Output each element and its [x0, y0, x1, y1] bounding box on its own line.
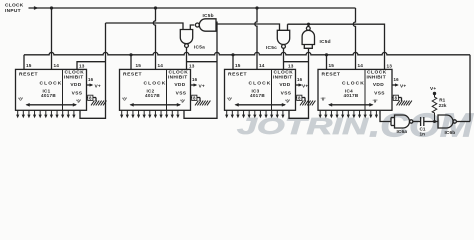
svg-text:CLOCK: CLOCK: [40, 80, 63, 86]
IC1 label VDD: [70, 82, 81, 88]
wire IC1 pin 13 wire: [77, 62, 106, 70]
IC4 pin 13 label: [387, 64, 393, 69]
svg-text:‘9’: ‘9’: [372, 99, 377, 104]
wire IC5d output to IC4 pin 13: [288, 24, 385, 69]
svg-text:16: 16: [192, 77, 198, 82]
wire IC2 pin 13 wire: [187, 61, 218, 63]
IC1 VSS wire: [87, 98, 97, 102]
C1 value label: [420, 127, 426, 137]
IC4 decoded outputs 0-9 arrows: [319, 110, 378, 118]
svg-text:V+: V+: [430, 86, 436, 92]
svg-text:IC6a: IC6a: [397, 129, 408, 135]
IC3 pin 16 label: [297, 77, 303, 82]
svg-text:V+: V+: [400, 83, 406, 89]
IC2 part number 4017B: [145, 93, 160, 98]
IC4 label VDD: [373, 82, 384, 88]
svg-text:INHIBIT: INHIBIT: [367, 75, 386, 81]
svg-text:14: 14: [259, 63, 265, 68]
svg-text:INHIBIT: INHIBIT: [168, 75, 187, 81]
svg-text:13: 13: [79, 64, 85, 69]
svg-text:V+: V+: [199, 83, 205, 89]
svg-text:CLOCK: CLOCK: [249, 80, 272, 86]
svg-text:22k: 22k: [439, 103, 447, 108]
IC5b input tie bar: [216, 22, 217, 28]
IC4 internal partition: [364, 69, 366, 110]
IC3 VDD wire to V+: [296, 83, 303, 86]
node CLOCK INPUT label: [5, 3, 24, 15]
wire clock to IC2 pin 14: [153, 8, 155, 69]
wire clock to IC3 pin 14: [255, 8, 257, 69]
IC3 part number 4017B: [250, 93, 265, 98]
svg-text:15: 15: [329, 63, 335, 68]
IC2 output '0' label: [122, 97, 127, 102]
IC3 ground: [300, 101, 315, 106]
wire IC6a output to C1: [413, 121, 421, 123]
IC1 pin 16 label: [88, 77, 94, 82]
nand gate IC5c: [277, 30, 289, 48]
svg-text:13: 13: [288, 64, 294, 69]
IC4 output '0' label: [320, 97, 325, 102]
svg-text:4017B: 4017B: [250, 93, 265, 98]
IC5c label: [266, 45, 277, 51]
IC1 outputs 0-9 span arrow: [26, 103, 78, 107]
svg-text:JOTRIN: JOTRIN: [237, 113, 370, 139]
IC2 VSS wire: [191, 98, 201, 102]
IC1 label CLOCK: [40, 80, 63, 86]
svg-text:V+: V+: [302, 83, 308, 89]
IC4 label CLOCK: [342, 80, 365, 86]
IC2 pin 16 label: [192, 77, 198, 82]
svg-text:15: 15: [136, 63, 142, 68]
IC1 label CLOCK INHIBIT: [64, 70, 84, 81]
wire IC3 '9' output loop: [289, 48, 309, 118]
IC2 pin 8 box: [192, 95, 197, 100]
svg-text:R1: R1: [439, 98, 445, 103]
junction IC5d output on net: [307, 23, 310, 26]
IC4 name: [345, 88, 353, 93]
counter IC3 4017B box: [225, 69, 296, 110]
IC3 decoded outputs 0-9 arrows: [225, 110, 284, 118]
IC5b label: [203, 13, 214, 19]
IC4 label RESET: [322, 71, 341, 77]
IC2 label VDD: [174, 82, 185, 88]
IC3 label CLOCK: [249, 80, 272, 86]
svg-text:RESET: RESET: [322, 71, 341, 77]
IC1 decoded outputs 0-9 arrows: [16, 110, 75, 118]
IC1 label VSS: [72, 91, 83, 97]
junction clock to IC2 pin14: [154, 6, 157, 9]
wire C1 to IC6b input: [424, 121, 438, 123]
IC3 label RESET: [228, 71, 247, 77]
IC1 V+ label: [95, 83, 101, 89]
IC3 pin 13 label: [288, 64, 294, 69]
IC3 output '0' label: [227, 97, 232, 102]
nand gate IC6b: [438, 115, 456, 128]
svg-text:‘9’: ‘9’: [285, 99, 290, 104]
svg-text:VSS: VSS: [72, 91, 83, 97]
svg-text:‘0’: ‘0’: [227, 97, 232, 102]
IC2 internal partition: [166, 69, 168, 110]
svg-text:RESET: RESET: [19, 71, 38, 77]
IC4 label VSS: [374, 91, 385, 97]
IC1 output '0' label: [18, 97, 23, 102]
wire IC5c output to IC3 pin 13: [283, 48, 285, 69]
IC4 pin 15 label: [329, 63, 335, 68]
svg-text:INHIBIT: INHIBIT: [64, 75, 83, 81]
IC2 pin 14 label: [158, 63, 164, 68]
IC4 V+ label: [400, 83, 406, 89]
IC4 ground: [397, 101, 412, 106]
svg-text:‘0’: ‘0’: [18, 97, 23, 102]
wire IC5a right input from IC5b output: [190, 25, 194, 30]
counter IC4 4017B box: [318, 69, 392, 110]
wire IC5c right input: [287, 24, 289, 30]
svg-text:IC5d: IC5d: [320, 39, 331, 45]
IC1 ground: [91, 101, 106, 106]
svg-text:16: 16: [394, 77, 400, 82]
svg-text:CLOCK: CLOCK: [342, 80, 365, 86]
IC4 pin 8 box: [393, 95, 398, 100]
svg-text:VDD: VDD: [279, 82, 290, 88]
svg-text:INHIBIT: INHIBIT: [273, 75, 292, 81]
svg-text:4017B: 4017B: [41, 93, 56, 98]
IC2 name: [146, 88, 154, 93]
IC2 decoded outputs 0-9 arrows: [120, 110, 179, 118]
wire RESET bus right edge feedback: [469, 55, 471, 122]
V+ supply terminal: [430, 86, 436, 95]
wire IC3 pin 13 wire: [284, 61, 309, 63]
svg-text:4017B: 4017B: [343, 93, 358, 98]
IC5d label: [320, 39, 331, 45]
svg-text:CLOCK: CLOCK: [5, 3, 24, 9]
IC1 label RESET: [19, 71, 38, 77]
IC2 label VSS: [176, 91, 187, 97]
R1 value label: [439, 98, 447, 108]
IC6a label: [397, 129, 408, 135]
IC4 output '9' label: [372, 99, 377, 104]
junction RESET bus to IC2 pin 15: [129, 53, 132, 56]
IC6a input tie bar: [391, 118, 395, 126]
IC3 pin 15 label: [235, 63, 241, 68]
junction clock to IC1 pin14: [50, 6, 53, 9]
svg-text:VSS: VSS: [281, 91, 292, 97]
IC4 VSS wire: [392, 98, 402, 102]
IC2 label CLOCK: [144, 80, 167, 86]
svg-text:VSS: VSS: [176, 91, 187, 97]
IC2 outputs 0-9 span arrow: [130, 103, 182, 107]
nand gate IC5b: [195, 19, 216, 31]
wire RESET bus down to IC1 pin 15: [23, 55, 25, 70]
junction R1 C1 IC6b node: [433, 120, 436, 123]
IC2 label RESET: [123, 71, 142, 77]
IC1 output '9' label: [76, 99, 81, 104]
IC4 outputs 0-9 span arrow: [328, 103, 374, 107]
svg-text:‘9’: ‘9’: [180, 99, 185, 104]
IC3 pin 8 box: [297, 95, 302, 100]
IC2 label CLOCK INHIBIT: [168, 70, 188, 81]
IC1 internal partition: [62, 69, 64, 110]
wire RESET to IC2 pin 15: [130, 55, 132, 70]
svg-text:‘0’: ‘0’: [320, 97, 325, 102]
wire IC6b output to RESET bus: [456, 121, 470, 123]
IC3 VSS wire: [296, 98, 306, 102]
svg-text:15: 15: [26, 63, 32, 68]
nand gate IC5a: [180, 30, 192, 48]
svg-text:16: 16: [88, 77, 94, 82]
svg-text:VDD: VDD: [174, 82, 185, 88]
IC3 label VSS: [281, 91, 292, 97]
nand gate IC5d: [302, 27, 314, 45]
wire IC1 '9' output loop: [80, 23, 106, 118]
IC3 name: [251, 88, 259, 93]
wire clock input line: [29, 6, 356, 10]
junction RESET bus to IC4 pin 15: [325, 53, 328, 56]
svg-text:13: 13: [189, 64, 195, 69]
IC2 ground: [195, 101, 210, 106]
svg-text:VSS: VSS: [374, 91, 385, 97]
wire RESET to IC3 pin 15: [232, 55, 234, 70]
wire clock to IC4 pin 14: [353, 8, 355, 69]
IC3 pin 14 label: [259, 63, 265, 68]
wire RESET to IC4 pin 15: [326, 55, 328, 70]
IC5d input stubs: [304, 45, 312, 49]
svg-text:.COM: .COM: [369, 106, 474, 143]
IC1 pin 14 label: [54, 63, 60, 68]
wire RESET bus: [24, 52, 470, 54]
svg-text:V+: V+: [95, 83, 101, 89]
IC1 VDD wire to V+: [87, 83, 94, 86]
counter IC1 4017B box: [16, 69, 87, 110]
IC4 pin 14 label: [358, 63, 364, 68]
svg-text:13: 13: [387, 64, 393, 69]
svg-text:CLOCK: CLOCK: [144, 80, 167, 86]
IC4 part number 4017B: [343, 93, 358, 98]
svg-text:14: 14: [54, 63, 60, 68]
IC2 pin 15 label: [136, 63, 142, 68]
svg-text:15: 15: [235, 63, 241, 68]
svg-text:IC5c: IC5c: [266, 45, 277, 51]
junction RESET bus to IC3 pin 15: [231, 53, 234, 56]
resistor R1: [432, 95, 437, 122]
svg-text:IC5b: IC5b: [203, 13, 214, 19]
svg-text:RESET: RESET: [228, 71, 247, 77]
nand gate IC6a: [395, 115, 413, 128]
IC1 pin 8 box: [88, 95, 93, 100]
svg-text:VDD: VDD: [70, 82, 81, 88]
IC2 V+ label: [199, 83, 205, 89]
IC1 pin 13 label: [79, 64, 85, 69]
IC2 output '9' label: [180, 99, 185, 104]
IC3 label VDD: [279, 82, 290, 88]
IC3 outputs 0-9 span arrow: [235, 103, 287, 107]
IC3 internal partition: [271, 69, 273, 110]
IC1 part number 4017B: [41, 93, 56, 98]
svg-text:VDD: VDD: [373, 82, 384, 88]
svg-text:14: 14: [158, 63, 164, 68]
IC2 VDD wire to V+: [191, 83, 198, 86]
IC4 label CLOCK INHIBIT: [367, 70, 387, 81]
svg-text:INPUT: INPUT: [5, 8, 21, 14]
wire IC5a output to IC2 pin 13: [186, 48, 188, 70]
wire IC5d output stem: [307, 24, 309, 26]
svg-text:14: 14: [358, 63, 364, 68]
wire IC2 '9' output loop: [184, 28, 217, 119]
wire IC2 net to IC5c input: [217, 24, 280, 30]
IC4 VDD wire to V+: [392, 83, 399, 86]
IC6b label: [445, 130, 456, 136]
svg-text:IC6b: IC6b: [445, 130, 456, 136]
counter IC2 4017B box: [120, 69, 191, 110]
IC4 pin 16 label: [394, 77, 400, 82]
IC5a label: [194, 45, 205, 51]
capacitor C1: [421, 117, 424, 126]
watermark JOTRIN.COM: [237, 106, 474, 143]
IC3 label CLOCK INHIBIT: [273, 70, 293, 81]
svg-text:16: 16: [297, 77, 303, 82]
svg-text:1n: 1n: [420, 132, 426, 137]
IC3 V+ label: [302, 83, 308, 89]
IC1 name: [42, 88, 50, 93]
IC3 output '9' label: [285, 99, 290, 104]
IC2 pin 13 label: [189, 64, 195, 69]
svg-text:‘9’: ‘9’: [76, 99, 81, 104]
svg-text:4017B: 4017B: [145, 93, 160, 98]
junction clock to IC3 pin14: [255, 6, 258, 9]
svg-text:‘0’: ‘0’: [122, 97, 127, 102]
svg-text:IC5a: IC5a: [194, 45, 205, 51]
wire clock to IC1 pin 14: [51, 8, 53, 69]
wire IC4 '9' output to IC6a: [380, 110, 391, 121]
IC1 pin 15 label: [26, 63, 32, 68]
wire IC1 net to IC5a input: [106, 23, 184, 30]
svg-text:RESET: RESET: [123, 71, 142, 77]
